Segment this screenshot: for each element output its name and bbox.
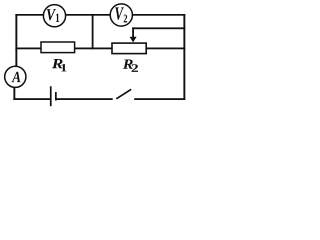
resistor R2 box (rheostat) (112, 43, 146, 54)
label V2 (voltmeter V) (115, 7, 124, 19)
wire: rheostat tap to right rail (132, 27, 185, 29)
resistor R1 box (41, 42, 75, 53)
label R2 subscript 2 (132, 64, 139, 72)
label R1 subscript 1 (61, 64, 66, 71)
wire: left rail vertical (15, 14, 17, 77)
label V1 (voltmeter V) (47, 9, 56, 20)
voltmeter V2 circle (110, 4, 132, 26)
wire: stub below ammeter to bottom wire (13, 77, 15, 100)
label A (ammeter) (12, 72, 21, 82)
rheostat slider arrow shaft (132, 27, 134, 38)
wire: right rail vertical (183, 14, 185, 100)
voltmeter V1 circle (43, 5, 65, 27)
ammeter A circle (5, 66, 26, 87)
label R2 (R) (123, 59, 133, 68)
label R1 (R) (52, 59, 63, 68)
wire: bottom right segment switch to right rail (134, 98, 185, 100)
switch blade (116, 89, 131, 99)
wire: top horizontal from top-left corner to top-right corner (15, 14, 185, 16)
wire: resistor row horizontal (15, 48, 185, 50)
battery long plate (50, 86, 52, 106)
wire: bottom left segment to battery (13, 98, 50, 100)
wire: bottom middle segment battery to switch (57, 98, 113, 100)
label V2 subscript 2 (124, 15, 128, 23)
battery short plate (55, 92, 57, 101)
wire: mid vertical junction between R1 and R2 (92, 14, 94, 49)
rheostat slider arrowhead (130, 37, 137, 43)
label V1 subscript 1 (56, 14, 59, 22)
